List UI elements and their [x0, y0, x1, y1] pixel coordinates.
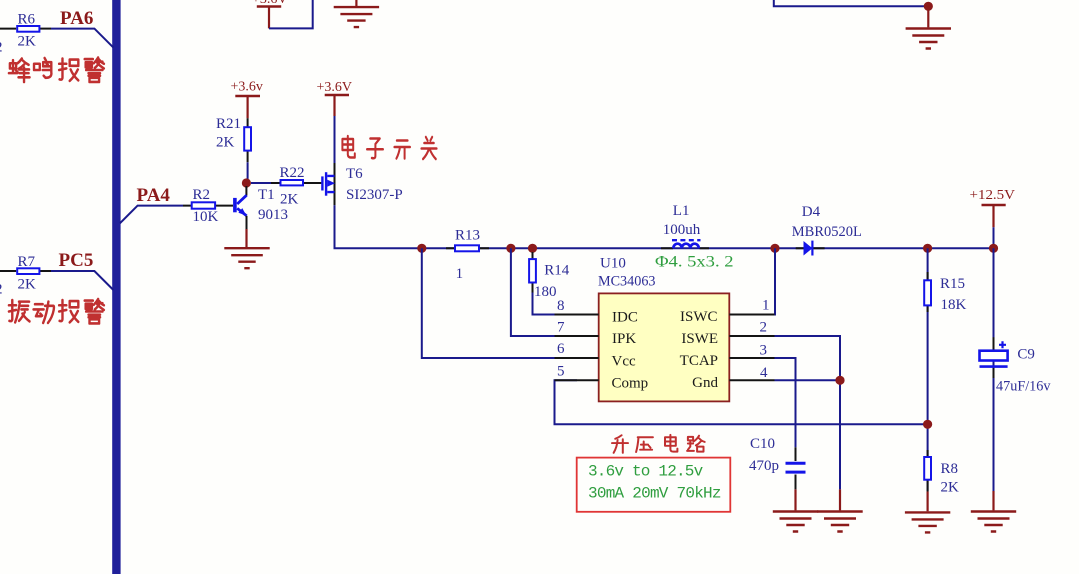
resistor R13: [446, 245, 489, 251]
svg-text:IDC: IDC: [612, 310, 638, 326]
resistor R2: [183, 202, 233, 208]
svg-text:MBR0520L: MBR0520L: [792, 224, 862, 240]
svg-text:MC34063: MC34063: [598, 274, 656, 290]
text vibration alarm (Chinese): [9, 299, 104, 323]
svg-text:R8: R8: [941, 461, 959, 477]
ground (C9, x=993.5): [971, 491, 1016, 532]
svg-text:100uh: 100uh: [663, 222, 701, 238]
svg-text:7: 7: [557, 320, 565, 336]
svg-text:T1: T1: [258, 187, 275, 203]
resistor R7: [17, 268, 51, 274]
node L1/D4/pin1 junction: [770, 244, 779, 253]
wire main horizontal: [422, 247, 994, 249]
svg-text:R7: R7: [18, 254, 36, 270]
wire R6 to bus: [51, 29, 113, 48]
node R15 top junction: [923, 244, 932, 253]
wire R15 column: [927, 248, 929, 491]
svg-text:2K: 2K: [941, 480, 960, 496]
node feedback junction: [923, 420, 932, 429]
svg-text:10K: 10K: [193, 209, 219, 225]
wire Comp branch: [555, 380, 928, 424]
node pin2/pin4 junction: [835, 376, 844, 385]
svg-text:+12.5V: +12.5V: [970, 188, 1016, 203]
wire R6 left segment: [0, 28, 16, 30]
text boost circuit (Chinese): [612, 435, 705, 453]
svg-text:R14: R14: [544, 263, 570, 279]
svg-text:SI2307-P: SI2307-P: [346, 187, 403, 203]
svg-text:2: 2: [0, 40, 3, 56]
wire pin1 branch: [751, 248, 775, 314]
node collector junction: [242, 178, 251, 187]
capacitor C10: [786, 447, 806, 489]
wire pin2 branch: [775, 336, 841, 489]
svg-text:2K: 2K: [216, 134, 235, 150]
svg-text:180: 180: [534, 284, 557, 300]
svg-text:6: 6: [557, 341, 565, 357]
ground (R8, x=927.6): [905, 492, 950, 533]
svg-text:IPK: IPK: [612, 331, 636, 347]
svg-text:C10: C10: [750, 436, 775, 452]
svg-text:R2: R2: [193, 187, 211, 203]
node top-right junction: [924, 2, 933, 11]
svg-text:3.6v to 12.5v: 3.6v to 12.5v: [588, 463, 704, 481]
svg-text:5: 5: [557, 364, 565, 380]
inductor L1: [661, 240, 709, 248]
svg-text:Φ4. 5x3. 2: Φ4. 5x3. 2: [655, 253, 734, 270]
wire Vcc branch: [422, 248, 556, 358]
text electronic switch (Chinese): [342, 136, 436, 159]
wire pin3 branch: [775, 358, 796, 447]
svg-text:PA6: PA6: [60, 8, 93, 29]
resistor R22: [251, 180, 321, 185]
resistor R21: [244, 118, 251, 162]
svg-text:PC5: PC5: [59, 250, 94, 271]
svg-text:2K: 2K: [18, 34, 37, 50]
svg-text:4: 4: [760, 365, 768, 381]
svg-text:R13: R13: [455, 227, 480, 243]
svg-text:R6: R6: [18, 12, 36, 28]
svg-text:L1: L1: [673, 203, 690, 219]
svg-text:U10: U10: [600, 256, 626, 272]
svg-text:D4: D4: [802, 204, 821, 220]
node IPK junction: [506, 244, 515, 253]
text buzzer alarm (Chinese): [9, 58, 104, 82]
svg-text:3: 3: [760, 342, 768, 358]
wire IPK branch: [511, 248, 556, 336]
svg-text:PA4: PA4: [137, 185, 171, 206]
resistor R14: [529, 252, 536, 293]
wire R7 to bus: [51, 271, 113, 290]
svg-text:470p: 470p: [749, 458, 779, 474]
wire +3.6V to T6 source: [334, 116, 336, 163]
power +3.6v (R21 column): [231, 80, 263, 119]
svg-text:9013: 9013: [258, 207, 288, 223]
transistor T1 (9013 NPN): [233, 186, 247, 229]
svg-text:TCAP: TCAP: [680, 353, 718, 369]
svg-text:8: 8: [557, 298, 565, 314]
power +12.5V: [970, 188, 1016, 227]
resistor R8: [924, 450, 931, 492]
ground (below T1): [224, 229, 269, 268]
svg-text:30mA 20mV 70kHz: 30mA 20mV 70kHz: [588, 485, 722, 503]
power +3.6V (T6 column): [317, 80, 353, 116]
svg-text:2: 2: [0, 282, 3, 298]
wire pin4 branch: [775, 379, 841, 381]
svg-text:T6: T6: [346, 166, 363, 182]
wire IDC branch: [533, 293, 557, 315]
wire PA4 from bus: [120, 206, 183, 224]
svg-text:+3.6V: +3.6V: [317, 80, 353, 95]
wire top-right: [774, 0, 929, 6]
svg-text:47uF/16v: 47uF/16v: [996, 378, 1051, 394]
wire R21 to collector node: [247, 162, 249, 179]
wire C9 column: [993, 248, 995, 491]
resistor R6: [17, 26, 51, 32]
bus bar (vertical): [112, 0, 120, 574]
svg-text:18K: 18K: [941, 297, 967, 313]
pin stubs left: [555, 315, 599, 381]
power +3.6V (top-left partial): [252, 0, 288, 28]
wire R7 left segment: [0, 270, 16, 272]
node main/Vcc junction: [417, 244, 426, 253]
chip U10 MC34063: [599, 293, 730, 401]
capacitor C9 (polarized): [980, 337, 1008, 378]
ground (top, x=356): [334, 0, 379, 27]
svg-text:1: 1: [456, 266, 464, 282]
svg-text:R15: R15: [940, 276, 965, 292]
ground (pins 2/4, x=840): [817, 489, 862, 531]
svg-text:R22: R22: [280, 165, 305, 181]
svg-text:2K: 2K: [18, 277, 37, 293]
resistor R15: [924, 272, 931, 312]
transistor T6 (SI2307-P MOSFET): [321, 163, 335, 205]
svg-text:Vcc: Vcc: [612, 354, 636, 370]
node IDC junction: [528, 244, 537, 253]
svg-text:Comp: Comp: [612, 376, 649, 392]
annotation box: [577, 458, 731, 512]
svg-text:2: 2: [760, 319, 768, 335]
svg-text:2K: 2K: [280, 191, 299, 207]
wire T6 drain to main node: [335, 205, 422, 248]
wire +12.5V to main: [993, 227, 995, 248]
node C9 top junction: [989, 244, 998, 253]
wire top-left: [269, 0, 313, 28]
pin stubs right: [729, 315, 774, 381]
svg-text:C9: C9: [1017, 347, 1035, 363]
diode D4: [796, 241, 825, 256]
svg-text:1: 1: [762, 298, 770, 314]
svg-text:Gnd: Gnd: [692, 375, 718, 391]
svg-text:ISWE: ISWE: [681, 331, 718, 347]
svg-text:+3.6v: +3.6v: [231, 80, 263, 95]
svg-text:ISWC: ISWC: [680, 309, 718, 325]
ground (C10, x=795.5): [773, 489, 818, 531]
ground (top-right, x=928): [906, 6, 951, 48]
svg-text:R21: R21: [216, 116, 241, 132]
